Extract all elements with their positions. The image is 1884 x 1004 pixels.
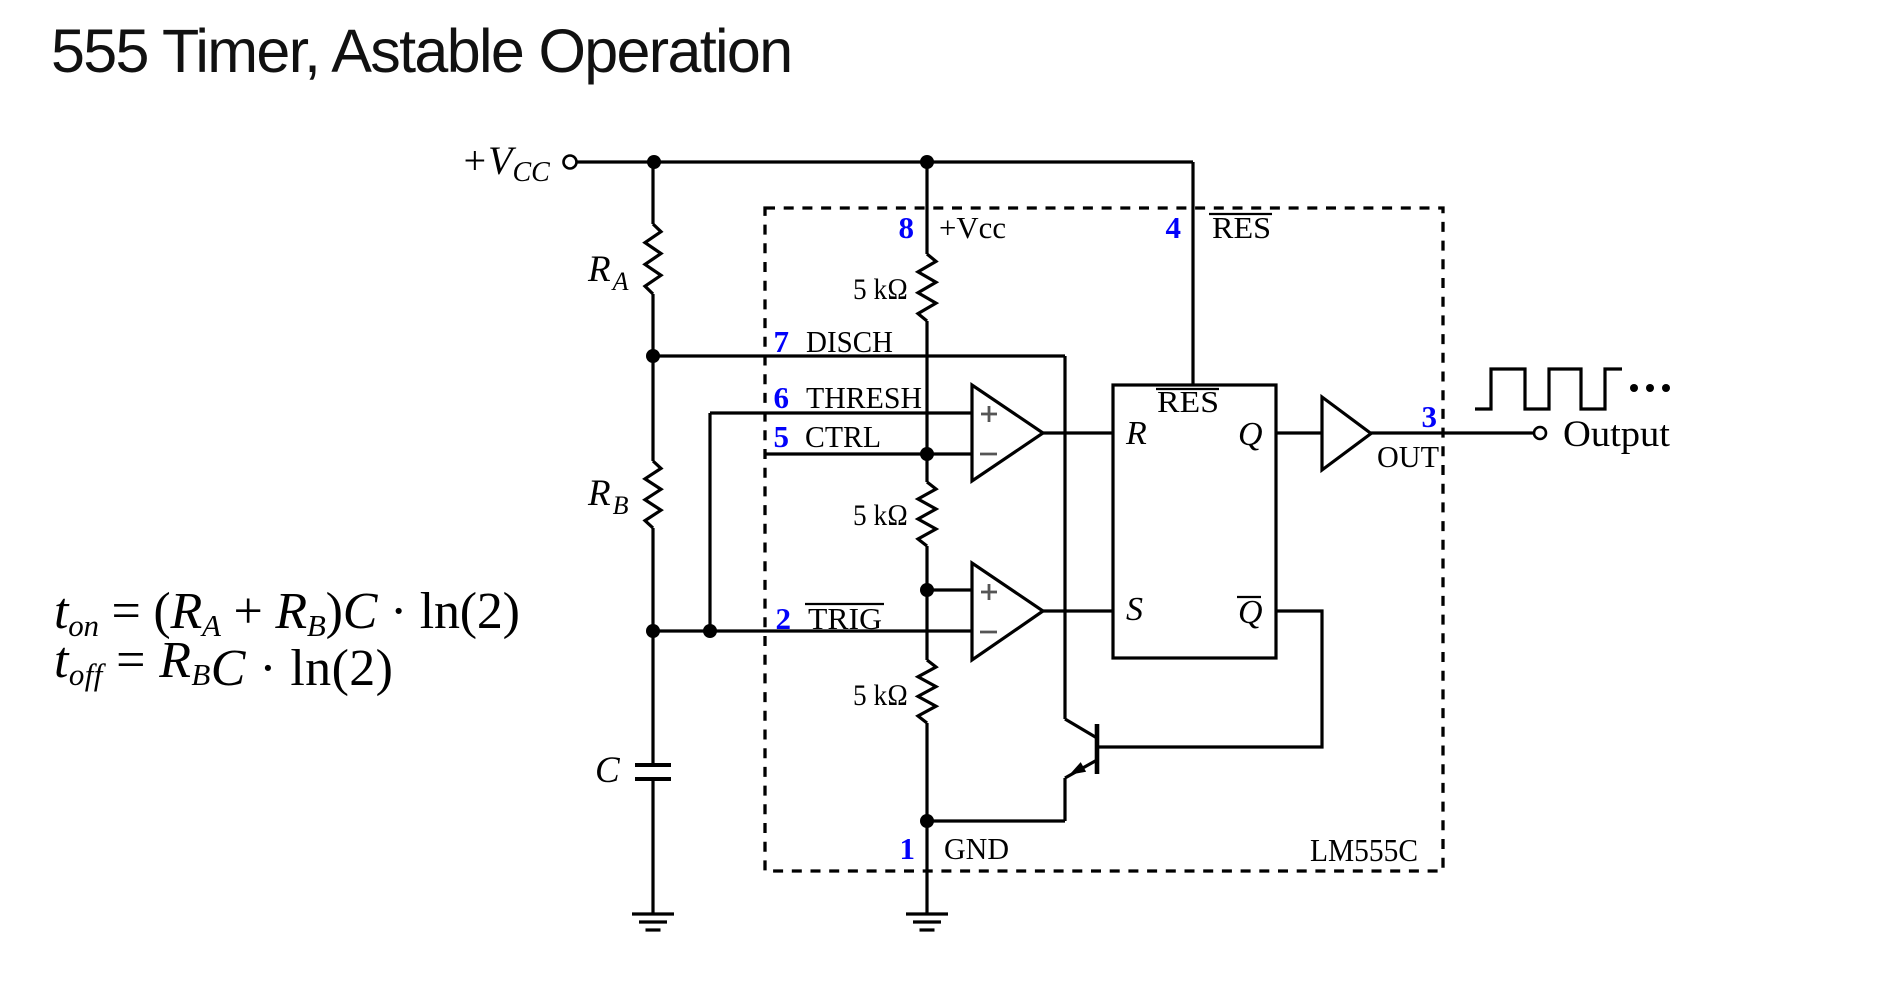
resistor RB	[587, 461, 661, 528]
op-amp comparator U1	[972, 385, 1043, 481]
svg-text:6: 6	[774, 380, 790, 415]
svg-text:THRESH: THRESH	[806, 380, 922, 415]
wire Qbar feedback	[1097, 611, 1322, 747]
svg-text:toff = RBC · ln(2): toff = RBC · ln(2)	[54, 632, 393, 697]
transistor Q1	[1065, 719, 1097, 821]
svg-text:DISCH: DISCH	[806, 324, 893, 359]
wire DISCH vertical to transistor collector	[1063, 356, 1066, 719]
pin 2 label TRIG	[776, 601, 885, 636]
svg-text:8: 8	[899, 210, 915, 245]
svg-text:2: 2	[776, 601, 792, 636]
wire RA top lead	[651, 162, 654, 224]
wire RES pin4 vertical	[1191, 162, 1194, 385]
svg-text:RES: RES	[1212, 210, 1271, 245]
pin 3 label OUT	[1377, 399, 1439, 474]
ground internal	[906, 914, 948, 930]
wire R3 to GND node	[925, 723, 928, 821]
pin 5 label CTRL	[774, 419, 882, 454]
svg-text:5 kΩ: 5 kΩ	[853, 273, 908, 306]
svg-text:RB: RB	[587, 473, 629, 520]
ground left	[632, 914, 674, 930]
resistor 5k R1	[853, 254, 936, 321]
pin 1 label GND	[900, 831, 1010, 866]
wire CTRL stub	[765, 452, 972, 455]
flip-flop U3	[1113, 385, 1276, 658]
wire C bottom lead	[651, 781, 654, 913]
svg-text:GND: GND	[944, 831, 1009, 866]
junction GND node	[920, 814, 934, 828]
junction CTRL / divider chain	[920, 447, 934, 461]
junction top rail / divider chain	[920, 155, 934, 169]
wire DISCH horizontal	[653, 354, 1065, 357]
node Output terminal	[1534, 414, 1671, 455]
junction divider / comparator2 plus	[920, 583, 934, 597]
svg-text:+VCC: +VCC	[461, 138, 550, 188]
wire RB to TRIG node	[651, 528, 654, 631]
capacitor C	[595, 750, 671, 791]
svg-text:5 kΩ: 5 kΩ	[853, 499, 908, 532]
svg-text:Q: Q	[1238, 594, 1263, 631]
wire THRESH horizontal	[710, 411, 972, 414]
junction DISCH node	[646, 349, 660, 363]
svg-text:OUT: OUT	[1377, 439, 1439, 474]
resistor 5k R3	[853, 660, 936, 723]
junction TRIG / THRESH branch	[703, 624, 717, 638]
flip-flop RES label	[1156, 384, 1219, 419]
junction TRIG node	[646, 624, 660, 638]
svg-text:TRIG: TRIG	[808, 601, 882, 636]
wire THRESH branch vertical	[708, 413, 711, 631]
resistor 5k R2	[853, 482, 936, 546]
svg-text:C: C	[595, 750, 621, 791]
wire Q to buffer	[1276, 431, 1322, 434]
pin 4 label RES	[1166, 210, 1273, 245]
resistor RA	[587, 224, 661, 296]
svg-text:1: 1	[900, 831, 916, 866]
wire U2 output to S input	[1043, 609, 1113, 612]
wire top rail	[577, 160, 1193, 163]
op-amp comparator U2	[972, 563, 1043, 660]
junction top rail / RA	[647, 155, 661, 169]
wire comparator2 plus stub	[927, 588, 972, 591]
node +Vcc terminal	[461, 138, 577, 188]
wire R2 to R3	[925, 546, 928, 660]
svg-text:5: 5	[774, 419, 790, 454]
svg-text:7: 7	[774, 324, 790, 359]
wire C top lead	[651, 631, 654, 763]
svg-text:RA: RA	[587, 249, 629, 296]
svg-text:R: R	[1125, 415, 1147, 452]
svg-text:555 Timer, Astable Operation: 555 Timer, Astable Operation	[51, 17, 792, 85]
svg-text:+Vcc: +Vcc	[939, 210, 1006, 245]
pin 7 label DISCH	[774, 324, 894, 359]
svg-text:4: 4	[1166, 210, 1182, 245]
svg-text:Output: Output	[1563, 414, 1671, 455]
pin 8 label +Vcc	[899, 210, 1007, 245]
flip-flop Qbar label	[1237, 594, 1263, 631]
pin 6 label THRESH	[774, 380, 923, 415]
wire GND lead	[925, 821, 928, 913]
waveform output square wave	[1475, 369, 1670, 409]
wire R1 to R2	[925, 321, 928, 482]
wire U1 output to R input	[1043, 431, 1113, 434]
svg-text:Q: Q	[1238, 416, 1263, 453]
IC boundary LM555C dashed box	[765, 208, 1443, 871]
svg-text:CTRL: CTRL	[805, 419, 881, 454]
wire emitter to GND node	[927, 819, 1065, 822]
wire RA to DISCH node	[651, 294, 654, 356]
wire RB top lead	[651, 356, 654, 461]
wire divider chain top lead (pin 8)	[925, 162, 928, 254]
svg-text:5 kΩ: 5 kΩ	[853, 679, 908, 712]
svg-text:LM555C: LM555C	[1310, 832, 1418, 868]
wire TRIG horizontal	[653, 629, 972, 632]
wire output	[1371, 431, 1534, 434]
svg-text:3: 3	[1422, 399, 1438, 434]
buffer amp	[1322, 397, 1371, 470]
svg-text:S: S	[1126, 591, 1143, 628]
